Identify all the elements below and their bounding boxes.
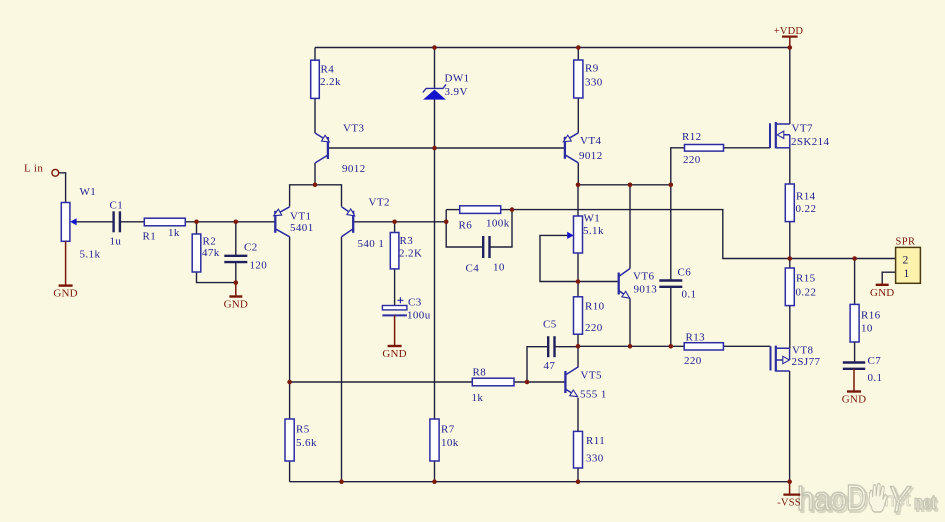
- MOSFET VT7 (2SK214): [770, 122, 790, 148]
- svg-text:3.9V: 3.9V: [445, 86, 468, 98]
- junction node 19: [628, 344, 633, 349]
- wire SPR pin1 hook: [882, 272, 895, 283]
- potentiometer W1 wiper arrow: [70, 218, 76, 225]
- svg-text:GND: GND: [53, 288, 77, 300]
- junction node 14: [234, 280, 239, 285]
- junction node 8: [669, 183, 674, 188]
- wire VT1 collector: [289, 237, 291, 382]
- svg-text:GND: GND: [224, 299, 248, 311]
- transistor VT3: [315, 133, 329, 163]
- junction node 5: [313, 183, 318, 188]
- svg-text:VT4: VT4: [580, 135, 601, 147]
- svg-text:VT5: VT5: [581, 370, 602, 382]
- svg-text:C2: C2: [244, 242, 258, 254]
- ground (below C7): [847, 369, 861, 392]
- wire C2 top stem: [235, 222, 237, 256]
- junction node 16: [788, 256, 793, 261]
- power terminal +VDD: [782, 37, 798, 48]
- wire VT3/VT4 base net: [328, 147, 565, 149]
- wire R8 to VT5 base: [514, 381, 565, 383]
- svg-text:540 1: 540 1: [358, 238, 385, 250]
- wire W1 top stem: [577, 185, 579, 216]
- svg-text:GND: GND: [870, 287, 894, 299]
- svg-text:9012: 9012: [342, 163, 366, 175]
- svg-text:2: 2: [903, 255, 909, 267]
- svg-text:C4: C4: [466, 263, 480, 275]
- svg-text:C1: C1: [110, 200, 124, 212]
- junction node 4: [432, 146, 437, 151]
- svg-text:C5: C5: [543, 319, 557, 331]
- svg-text:DW1: DW1: [445, 73, 470, 85]
- capacitor C4: [483, 236, 489, 258]
- wire R2 bottom to GND node: [197, 272, 236, 283]
- junction node 9: [194, 220, 199, 225]
- svg-text:VT6: VT6: [633, 271, 654, 283]
- svg-text:5.1k: 5.1k: [583, 225, 604, 237]
- svg-text:0.1: 0.1: [868, 372, 883, 384]
- svg-text:R10: R10: [585, 301, 605, 313]
- svg-text:SPR: SPR: [896, 237, 916, 248]
- wire C1 left segment: [76, 221, 113, 223]
- MOSFET VT8 (2SJ77): [771, 346, 790, 372]
- transistor VT1: [274, 207, 290, 237]
- resistor W1 (feedback pot): [574, 216, 583, 253]
- resistor R12: [685, 145, 724, 152]
- wire C1 to R1: [120, 221, 144, 223]
- svg-text:5401: 5401: [290, 222, 314, 234]
- wire VT1 collector to R8 line: [290, 381, 473, 383]
- svg-text:R16: R16: [861, 310, 881, 322]
- wire VT4 collector stem: [577, 163, 579, 185]
- svg-text:L in: L in: [24, 163, 43, 175]
- resistor R9: [574, 60, 583, 98]
- wire R4 bottom to VT3 emitter: [314, 98, 316, 133]
- svg-text:330: 330: [585, 77, 603, 89]
- svg-text:R15: R15: [796, 273, 816, 285]
- wire VT5 node to R13: [578, 345, 684, 347]
- wire C2 bottom stem: [235, 262, 237, 283]
- svg-text:10k: 10k: [441, 437, 459, 449]
- wire R5 top stem: [289, 382, 291, 419]
- svg-text:R9: R9: [585, 63, 599, 75]
- svg-text:120: 120: [250, 260, 268, 272]
- transistor VT2: [342, 207, 355, 237]
- junction node 10: [234, 220, 239, 225]
- transistor VT6: [619, 269, 630, 299]
- svg-text:2.2K: 2.2K: [399, 248, 422, 260]
- wire VT2 collector: [341, 237, 343, 482]
- junction node 1: [432, 45, 437, 50]
- svg-text:0.22: 0.22: [796, 287, 817, 299]
- junction node 26: [787, 479, 792, 484]
- svg-text:555 1: 555 1: [580, 389, 607, 401]
- wire R9 bottom to VT4 emitter: [577, 98, 579, 133]
- wire DW1 cathode stem: [434, 48, 436, 89]
- wire R2 top stem: [196, 222, 198, 234]
- svg-text:220: 220: [683, 154, 701, 166]
- svg-text:R11: R11: [586, 435, 605, 447]
- wire VT8 source to -VSS bus: [789, 371, 791, 482]
- power terminal -VSS: [783, 482, 800, 495]
- resistor R6: [460, 206, 501, 214]
- resistor R13: [684, 343, 723, 350]
- svg-text:R4: R4: [321, 64, 335, 76]
- resistor R7: [430, 419, 439, 461]
- resistor R16: [850, 304, 859, 342]
- junction node 3: [788, 45, 793, 50]
- svg-text:W1: W1: [584, 213, 601, 225]
- watermark haoDIY.net: [797, 477, 938, 522]
- wire C5 to VT5 collector node: [555, 346, 578, 348]
- svg-text:R3: R3: [400, 235, 414, 247]
- wire VT5 collector stem: [577, 346, 579, 367]
- junction node 7: [628, 183, 633, 188]
- svg-text:5.1k: 5.1k: [80, 249, 101, 261]
- resistor R3: [390, 233, 399, 269]
- junction node 21: [287, 380, 292, 385]
- wire R10 top stem: [577, 282, 579, 297]
- capacitor C1: [114, 211, 120, 232]
- wire R16 bottom to C7: [854, 342, 856, 363]
- junction node 24: [432, 479, 437, 484]
- svg-text:9012: 9012: [579, 150, 603, 162]
- svg-text:C7: C7: [868, 355, 882, 367]
- junction node 12: [444, 220, 449, 225]
- wire R4 top stem: [314, 48, 316, 61]
- zener diode DW1: [423, 84, 446, 99]
- junction node 23: [339, 479, 344, 484]
- wire VT3 collector stem: [314, 163, 316, 185]
- capacitor C5: [548, 336, 554, 357]
- wire VT6 emitter stem: [629, 299, 631, 347]
- wire R5 bottom stem: [289, 461, 291, 482]
- svg-text:10: 10: [861, 323, 873, 335]
- junction node 25: [576, 479, 581, 484]
- svg-text:1k: 1k: [472, 392, 484, 404]
- capacitor C2: [224, 256, 247, 262]
- wire R13 to VT8 gate: [723, 345, 770, 347]
- svg-text:C3: C3: [408, 297, 422, 309]
- svg-text:R1: R1: [143, 231, 157, 243]
- transistor VT5: [565, 367, 578, 397]
- wire R14 bottom to output node: [789, 222, 791, 259]
- resistor R8: [472, 378, 514, 386]
- resistor R2: [192, 234, 201, 272]
- wire R1 to VT1 base: [185, 221, 275, 223]
- wire DW1 anode / center vertical: [434, 100, 436, 420]
- svg-text:R5: R5: [296, 424, 310, 436]
- svg-text:VT2: VT2: [369, 197, 390, 209]
- wire R6/C4 right branch: [490, 210, 513, 247]
- svg-text:2SJ77: 2SJ77: [792, 356, 821, 368]
- wire R9 top stem: [577, 48, 579, 61]
- wire R3 bottom to C3: [394, 269, 396, 306]
- svg-text:47k: 47k: [202, 247, 220, 259]
- junction node 17: [852, 256, 857, 261]
- junction node 22: [525, 380, 530, 385]
- input terminal Lin: [52, 169, 59, 176]
- svg-text:10: 10: [493, 262, 505, 274]
- svg-text:W1: W1: [80, 186, 97, 198]
- svg-text:47: 47: [544, 360, 556, 372]
- wire W1 wiper loop: [540, 235, 578, 281]
- ground (SPR pin 1): [876, 283, 889, 285]
- svg-text:GND: GND: [842, 394, 866, 406]
- resistor W1 (input pot): [61, 203, 70, 242]
- svg-text:1: 1: [904, 268, 910, 280]
- svg-text:R12: R12: [682, 131, 702, 143]
- svg-text:VT1: VT1: [290, 211, 311, 223]
- capacitor C7: [843, 363, 865, 369]
- resistor R15: [785, 268, 794, 306]
- resistor R10: [574, 297, 583, 334]
- wire R15 bottom to VT8: [789, 306, 791, 349]
- wire VT5 emitter stem: [577, 398, 579, 431]
- svg-text:GND: GND: [382, 348, 406, 360]
- svg-text:R6: R6: [459, 220, 473, 232]
- svg-text:100k: 100k: [486, 218, 510, 230]
- ground (below C3): [388, 315, 402, 346]
- svg-text:+VDD: +VDD: [774, 26, 804, 37]
- svg-text:220: 220: [684, 355, 702, 367]
- junction node 15: [576, 279, 581, 284]
- svg-text:R14: R14: [796, 191, 816, 203]
- wire W1 bottom stem: [577, 253, 579, 282]
- wire R12 to VT7 gate: [724, 147, 770, 149]
- svg-text:C6: C6: [678, 267, 692, 279]
- svg-text:100u: 100u: [407, 310, 431, 322]
- junction node 11: [392, 220, 397, 225]
- resistor R14: [785, 184, 794, 222]
- svg-text:220: 220: [585, 322, 603, 334]
- capacitor C6: [659, 281, 682, 287]
- wire VT7 source to R14: [789, 148, 791, 184]
- svg-text:-VSS: -VSS: [777, 498, 801, 509]
- svg-text:0.22: 0.22: [796, 203, 817, 215]
- resistor R1: [144, 218, 185, 226]
- junction node 18: [576, 344, 581, 349]
- wire R11 bottom stem: [577, 468, 579, 482]
- potentiometer W1 feedback wiper arrow: [567, 232, 573, 239]
- junction node 6: [576, 183, 581, 188]
- svg-text:VT3: VT3: [343, 123, 364, 135]
- junction node 2: [576, 45, 581, 50]
- resistor R4: [311, 60, 320, 98]
- capacitor C3 (polarized): [382, 297, 407, 315]
- svg-text:net: net: [914, 493, 937, 514]
- svg-text:2SK214: 2SK214: [791, 136, 830, 148]
- wire R3 top stem: [394, 222, 396, 233]
- wire R12 left lead: [671, 148, 685, 185]
- wire W1 node to VT6 base: [578, 281, 619, 283]
- wire R6/C4 left branch: [446, 210, 483, 247]
- svg-text:0.1: 0.1: [682, 289, 697, 301]
- wire R7 bottom stem: [434, 461, 436, 482]
- wire VT7 drain to +VDD: [789, 48, 791, 125]
- wire diff-pair emitter rail: [290, 185, 342, 207]
- wire R15 top stem: [789, 259, 791, 269]
- junction node 20: [669, 344, 674, 349]
- svg-text:330: 330: [586, 453, 604, 465]
- svg-text:R13: R13: [686, 332, 706, 344]
- svg-text:9013: 9013: [634, 284, 658, 296]
- transistor VT4: [563, 133, 578, 163]
- wire VT6 collector: [629, 185, 631, 269]
- wire R16 top stem: [854, 259, 856, 305]
- resistor R5: [285, 419, 294, 461]
- resistor R11: [574, 431, 583, 468]
- wire feedback line to output: [512, 210, 896, 259]
- svg-text:1k: 1k: [168, 227, 180, 239]
- svg-text:R7: R7: [441, 424, 455, 436]
- ground (below R2/C2): [229, 283, 242, 297]
- svg-text:1u: 1u: [110, 236, 122, 248]
- wire C6 bottom stem: [670, 287, 672, 346]
- svg-text:R2: R2: [203, 236, 217, 248]
- svg-text:VT8: VT8: [792, 345, 813, 357]
- wire bottom -VSS bus: [290, 481, 790, 483]
- connector SPR: [896, 247, 921, 283]
- wire input to W1 wiper node: [59, 173, 66, 203]
- svg-text:R8: R8: [473, 367, 487, 379]
- svg-text:haoDIY.net: haoDIY.net: [818, 490, 911, 511]
- wire C5 branch from R8 line: [527, 347, 548, 382]
- svg-text:2.2k: 2.2k: [320, 76, 341, 88]
- wire top +VDD bus: [315, 47, 790, 49]
- junction node 13: [510, 207, 515, 212]
- svg-text:5.6k: 5.6k: [296, 437, 317, 449]
- svg-text:VT7: VT7: [792, 123, 813, 135]
- wire VT4 collector bus: [578, 184, 671, 186]
- wire C6 top stem: [670, 185, 672, 281]
- wire R6 left lead: [446, 209, 460, 211]
- wire VT2 base to R6 node: [353, 221, 446, 223]
- wire R6 right lead: [501, 209, 513, 211]
- ground (below W1): [59, 241, 73, 285]
- wire R10 bottom stem: [577, 334, 579, 346]
